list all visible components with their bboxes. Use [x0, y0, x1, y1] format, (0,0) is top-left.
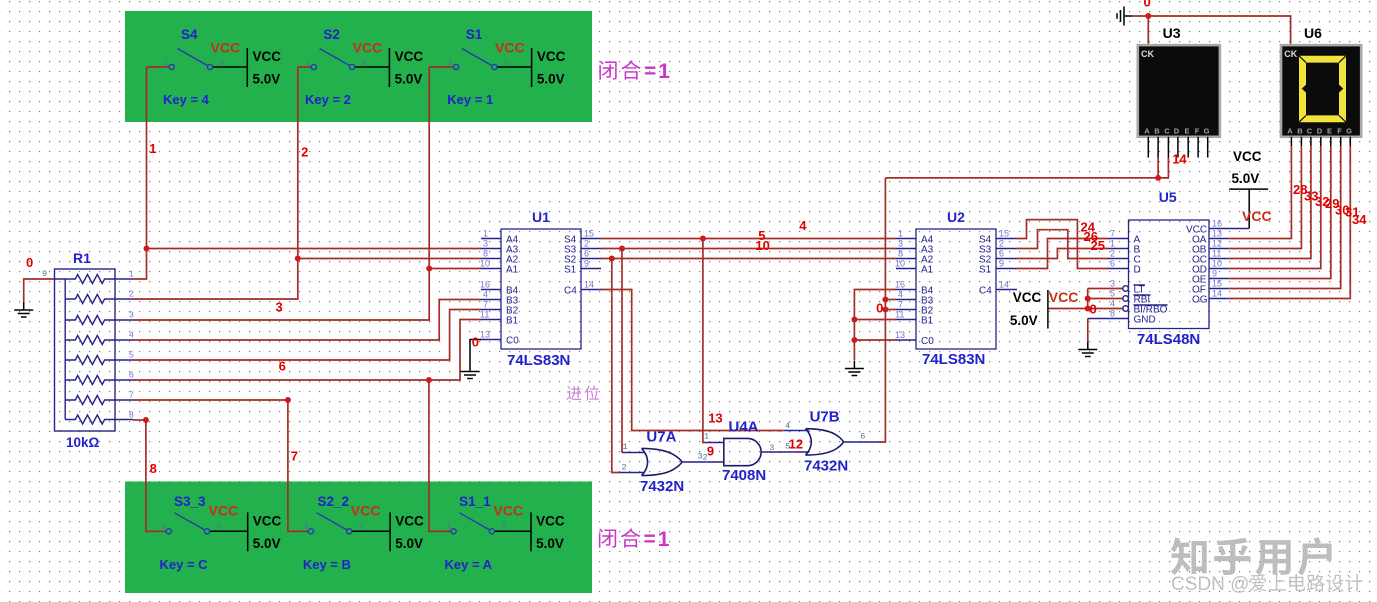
resistor R1 element 6	[65, 376, 133, 385]
wire U7B output carry riser	[880, 178, 885, 442]
svg-text:11: 11	[895, 310, 904, 320]
svg-text:4: 4	[129, 330, 134, 340]
R1 pin numbers	[129, 269, 134, 420]
green annotation box top	[125, 11, 592, 122]
svg-text:1: 1	[161, 522, 166, 532]
resistor R1 element 7	[65, 396, 133, 405]
svg-text:7: 7	[483, 300, 488, 310]
svg-text:D: D	[1174, 127, 1180, 136]
svg-text:S1_1: S1_1	[459, 494, 491, 509]
wire S1 down to R1 pin3	[133, 67, 429, 320]
wire net 0 CK grounds	[1132, 16, 1291, 45]
svg-text:U1: U1	[532, 209, 550, 225]
svg-text:OG: OG	[1192, 295, 1208, 306]
svg-text:VCC: VCC	[395, 49, 424, 64]
VCC bar U5	[1047, 290, 1049, 329]
svg-text:6: 6	[279, 359, 286, 374]
svg-text:14: 14	[1212, 289, 1222, 299]
svg-text:0: 0	[1144, 0, 1151, 10]
svg-text:F: F	[1195, 127, 1200, 136]
svg-text:2: 2	[504, 58, 509, 68]
svg-text:12: 12	[789, 437, 803, 452]
svg-text:4: 4	[898, 290, 903, 300]
green annotation box bottom	[125, 482, 592, 594]
svg-text:13: 13	[1212, 229, 1222, 239]
wire U5 VCC pin to VCC bar	[1229, 189, 1268, 228]
svg-text:1: 1	[704, 432, 709, 442]
svg-text:2: 2	[501, 522, 506, 532]
svg-text:2: 2	[301, 145, 308, 160]
svg-text:CK: CK	[1284, 49, 1297, 59]
svg-text:4: 4	[799, 218, 807, 233]
svg-text:C4: C4	[979, 286, 992, 297]
svg-text:D: D	[1317, 127, 1323, 136]
svg-text:8: 8	[1110, 309, 1115, 319]
svg-text:C4: C4	[564, 286, 577, 297]
svg-text:E: E	[1327, 127, 1332, 136]
wire U5 OD to U6 D	[1229, 146, 1321, 269]
switch S1_1	[430, 494, 565, 572]
svg-text:7: 7	[898, 300, 903, 310]
svg-text:3: 3	[898, 239, 903, 249]
svg-text:2: 2	[217, 522, 222, 532]
svg-text:VCC: VCC	[395, 514, 424, 529]
svg-text:11: 11	[1212, 249, 1221, 259]
svg-text:74LS83N: 74LS83N	[922, 351, 985, 368]
ground sideways top	[1117, 7, 1132, 26]
wire S2_2 riser	[288, 400, 309, 531]
wire U2 S2 to U5 B crossover	[1016, 249, 1109, 259]
svg-text:13: 13	[480, 330, 490, 340]
svg-text:6: 6	[999, 249, 1004, 259]
node carry to U2 B2	[882, 307, 888, 313]
svg-text:7432N: 7432N	[804, 458, 848, 475]
wire U2 S1 to U5 A crossover	[1016, 239, 1109, 269]
wire S3_3 riser	[146, 420, 166, 531]
svg-text:16: 16	[895, 280, 905, 290]
svg-text:0: 0	[26, 255, 33, 270]
svg-text:VCC: VCC	[1233, 149, 1262, 164]
svg-text:E: E	[1184, 127, 1189, 136]
svg-text:VCC: VCC	[1242, 208, 1272, 224]
wire U5 OB to U6 B	[1229, 146, 1302, 249]
svg-text:R1: R1	[73, 250, 91, 266]
svg-text:8: 8	[129, 410, 134, 420]
svg-text:VCC: VCC	[1013, 290, 1042, 305]
svg-text:Key = A: Key = A	[445, 557, 493, 572]
svg-text:G: G	[1204, 127, 1210, 136]
svg-text:9: 9	[999, 259, 1004, 269]
svg-text:=1: =1	[644, 528, 672, 551]
node S4out tap	[700, 236, 706, 242]
svg-text:4: 4	[1110, 299, 1115, 309]
svg-text:7432N: 7432N	[640, 478, 684, 495]
resistor R1 element 8	[65, 415, 133, 424]
svg-text:1: 1	[129, 269, 134, 279]
wire R1.6 to U1 B1 and S1_1	[133, 320, 481, 381]
svg-text:1: 1	[1110, 239, 1115, 249]
ground U1 C0	[461, 364, 480, 379]
svg-text:S1: S1	[979, 265, 992, 276]
svg-text:Key = B: Key = B	[303, 557, 351, 572]
switch S2_2	[288, 494, 424, 572]
svg-text:Key = 4: Key = 4	[163, 92, 210, 107]
svg-text:10: 10	[895, 259, 905, 269]
node U3 segB junction	[1155, 175, 1161, 181]
node RBI junction	[1085, 296, 1091, 302]
svg-text:U4A: U4A	[729, 419, 759, 436]
svg-text:GND: GND	[1134, 315, 1156, 326]
wire U5 OG to U6 G	[1229, 146, 1351, 299]
svg-text:1: 1	[149, 141, 156, 156]
wire U1 C0 to ground	[470, 340, 481, 364]
switch S2	[298, 27, 424, 107]
svg-text:Key = C: Key = C	[160, 557, 209, 572]
node S1/R1.3 junction	[426, 266, 432, 272]
wire U1 S3 to U2 A3 net 10	[601, 248, 896, 250]
ground R1	[14, 302, 33, 317]
wire net 3 to U1 A2	[298, 258, 481, 260]
svg-text:U7A: U7A	[646, 429, 676, 446]
node R1.7/S2_2 junction	[285, 397, 291, 403]
svg-text:11: 11	[480, 310, 489, 320]
wire U2 B4 B1 C0 ground bus	[854, 290, 896, 361]
switch S1	[429, 27, 565, 107]
svg-text:0: 0	[472, 335, 479, 350]
svg-text:Key = 2: Key = 2	[305, 92, 351, 107]
wire carry to U2 B2	[885, 309, 896, 311]
svg-text:1: 1	[483, 229, 488, 239]
wire carry net 14 to U3 segments B C	[885, 158, 1168, 178]
svg-text:15: 15	[1212, 279, 1222, 289]
svg-text:5.0V: 5.0V	[395, 536, 423, 551]
svg-text:10: 10	[1212, 259, 1222, 269]
svg-text:G: G	[1346, 127, 1352, 136]
resistor R1 element 5	[65, 356, 133, 365]
svg-text:1: 1	[898, 229, 903, 239]
node R1.6/S1_1 junction	[426, 377, 432, 383]
seven-segment display U6 showing 0	[1281, 25, 1361, 146]
svg-text:VCC: VCC	[1049, 289, 1079, 305]
svg-text:U6: U6	[1304, 25, 1322, 41]
wire R1.4 to U1 B3	[133, 300, 481, 341]
resistor R1 element 4	[65, 336, 133, 345]
ground U5	[1078, 342, 1097, 357]
svg-text:U7B: U7B	[810, 409, 840, 426]
svg-text:5.0V: 5.0V	[253, 72, 281, 87]
wire net 13 down to U4A pin1	[703, 239, 705, 443]
node R1.8/S3_3 junction	[143, 417, 149, 423]
svg-text:3: 3	[129, 310, 134, 320]
svg-text:0: 0	[1090, 302, 1097, 317]
wire down to U7A pin2	[612, 259, 620, 473]
wire net 1 to U1 A3	[147, 248, 482, 250]
wire R1.5 to U1 B2	[133, 310, 481, 361]
wire R1.8 to S3_3	[133, 419, 146, 421]
svg-text:A: A	[1287, 127, 1293, 136]
svg-text:B1: B1	[506, 316, 519, 327]
svg-text:2: 2	[999, 239, 1004, 249]
svg-text:U3: U3	[1163, 25, 1181, 41]
svg-text:5.0V: 5.0V	[1232, 171, 1260, 186]
wire U2 S3 to U5 C crossover	[1016, 230, 1109, 259]
svg-text:6: 6	[1110, 259, 1115, 269]
svg-text:S1: S1	[466, 27, 483, 42]
node S4/R1.1 junction	[144, 246, 150, 252]
svg-text:7408N: 7408N	[722, 467, 766, 484]
svg-text:6: 6	[584, 249, 589, 259]
svg-text:S1: S1	[564, 265, 577, 276]
wire to U1 A1	[429, 268, 481, 270]
svg-text:0: 0	[876, 301, 883, 316]
svg-text:74LS48N: 74LS48N	[1137, 331, 1200, 348]
svg-text:A: A	[1144, 127, 1150, 136]
resistor R1 element 3	[65, 316, 133, 325]
svg-text:1: 1	[304, 522, 309, 532]
svg-text:6: 6	[129, 370, 134, 380]
svg-text:3: 3	[483, 239, 488, 249]
wire U5 OF to U6 F	[1229, 146, 1341, 289]
svg-text:6: 6	[860, 432, 865, 442]
svg-text:34: 34	[1352, 212, 1367, 227]
wire U5 LT RBI BI tie to VCC	[1048, 289, 1123, 309]
node S2out tap	[609, 256, 615, 262]
svg-text:7: 7	[129, 390, 134, 400]
svg-text:2: 2	[362, 58, 367, 68]
svg-text:B: B	[1154, 127, 1160, 136]
svg-text:3: 3	[276, 300, 283, 315]
svg-text:C0: C0	[921, 336, 934, 347]
resistor R1 element 2	[65, 295, 133, 304]
svg-text:S2_2: S2_2	[318, 494, 350, 509]
svg-text:Key = 1: Key = 1	[447, 92, 493, 107]
svg-text:A1: A1	[506, 265, 519, 276]
svg-text:CSDN @: CSDN @	[1171, 574, 1249, 595]
svg-text:7: 7	[291, 449, 298, 464]
wire U2 S4 to U5 D crossover	[1016, 220, 1109, 269]
svg-text:5.0V: 5.0V	[537, 72, 565, 87]
svg-text:9: 9	[707, 444, 714, 459]
svg-text:A1: A1	[921, 265, 934, 276]
svg-text:VCC: VCC	[253, 514, 282, 529]
svg-text:10: 10	[755, 238, 769, 253]
svg-text:2: 2	[584, 239, 589, 249]
svg-text:VCC: VCC	[536, 514, 565, 529]
wire S1_1 riser	[429, 380, 451, 531]
svg-text:16: 16	[480, 280, 490, 290]
svg-text:2: 2	[622, 463, 627, 473]
U5 VCC power bar top right	[1232, 149, 1272, 224]
svg-text:4: 4	[483, 290, 488, 300]
svg-text:1: 1	[446, 522, 451, 532]
svg-text:VCC: VCC	[495, 40, 525, 56]
wire U5 OA to U6 A	[1229, 146, 1292, 239]
ground U2	[845, 361, 864, 376]
wire carry to U2 B3	[885, 299, 896, 301]
svg-text:14: 14	[1172, 152, 1187, 167]
svg-text:14: 14	[584, 280, 594, 290]
svg-text:D: D	[1134, 265, 1141, 276]
svg-text:4: 4	[785, 421, 790, 431]
node carry to U2 B3	[882, 297, 888, 303]
node U2 C0 gnd junction	[851, 337, 857, 343]
svg-text:2: 2	[359, 522, 364, 532]
svg-text:1: 1	[623, 442, 628, 452]
svg-text:5.0V: 5.0V	[395, 72, 423, 87]
svg-text:12: 12	[1212, 239, 1222, 249]
wire U5 GND pin to ground	[1087, 319, 1089, 342]
wire U5 OE to U6 E	[1229, 146, 1331, 279]
op-amp U2 74LS83N adder	[895, 209, 1017, 368]
annotation closed=1 top	[599, 61, 616, 80]
svg-text:CK: CK	[1141, 49, 1154, 59]
svg-text:VCC: VCC	[351, 503, 381, 519]
svg-text:=1: =1	[644, 60, 672, 83]
svg-text:1: 1	[164, 58, 169, 68]
svg-text:15: 15	[999, 229, 1009, 239]
svg-text:14: 14	[999, 280, 1009, 290]
wire U1 S4 to U2 A4 net 5	[601, 238, 896, 240]
svg-text:S2: S2	[323, 27, 340, 42]
U5 VCC source texts	[1010, 289, 1078, 328]
svg-text:1: 1	[448, 58, 453, 68]
wire S2 down to R1 pin2	[133, 67, 298, 299]
wire R1 pin9 to ground	[24, 279, 55, 302]
seven-segment display U3	[1138, 25, 1220, 158]
svg-text:5.0V: 5.0V	[1010, 313, 1038, 328]
wire U1 S2 to U2 A2	[601, 258, 896, 260]
svg-text:U2: U2	[947, 209, 965, 225]
svg-text:C0: C0	[506, 336, 519, 347]
svg-text:16: 16	[1212, 219, 1222, 229]
svg-text:2: 2	[1110, 249, 1115, 259]
annotation carry label	[567, 386, 582, 400]
svg-text:B: B	[1297, 127, 1303, 136]
svg-text:5: 5	[129, 350, 134, 360]
svg-text:B1: B1	[921, 316, 934, 327]
svg-text:VCC: VCC	[209, 503, 239, 519]
svg-text:VCC: VCC	[211, 40, 241, 56]
svg-text:3: 3	[769, 443, 774, 453]
svg-text:VCC: VCC	[353, 40, 383, 56]
wire down to U7A pin1	[621, 249, 623, 453]
switch S4	[147, 27, 282, 107]
svg-text:8: 8	[150, 461, 157, 476]
svg-text:9: 9	[584, 259, 589, 269]
svg-text:2: 2	[129, 289, 134, 299]
wire U5 OC to U6 C	[1229, 146, 1311, 259]
svg-text:VCC: VCC	[253, 49, 282, 64]
node CK gnd junction	[1145, 13, 1151, 19]
resistor network R1	[42, 250, 115, 450]
wire S4 down to R1 pin1 with tap to U1 A3	[133, 67, 147, 279]
svg-text:S3_3: S3_3	[174, 494, 206, 509]
annotation closed=1 bottom	[599, 529, 616, 548]
svg-text:15: 15	[584, 229, 594, 239]
svg-text:5.0V: 5.0V	[536, 536, 564, 551]
svg-text:7: 7	[1110, 229, 1115, 239]
svg-text:1: 1	[306, 58, 311, 68]
svg-text:13: 13	[708, 411, 722, 426]
watermark zhihu	[1171, 538, 1207, 575]
node U2 B1 gnd junction	[851, 317, 857, 323]
svg-text:5: 5	[1110, 289, 1115, 299]
svg-text:C: C	[1307, 127, 1313, 136]
svg-text:8: 8	[898, 249, 903, 259]
svg-text:C: C	[1164, 127, 1170, 136]
svg-text:U5: U5	[1159, 189, 1177, 205]
op-amp U7A 7432N OR gate	[620, 429, 724, 496]
switch S3_3	[146, 494, 282, 572]
svg-text:9: 9	[1212, 269, 1217, 279]
op-amp U1 74LS83N adder	[480, 209, 601, 369]
svg-text:74LS83N: 74LS83N	[507, 352, 570, 369]
svg-text:2: 2	[220, 58, 225, 68]
svg-text:13: 13	[895, 330, 905, 340]
resistor R1 element 1	[55, 275, 134, 284]
svg-text:F: F	[1337, 127, 1342, 136]
svg-text:VCC: VCC	[537, 49, 566, 64]
wire U1 C4 to U7B pin4	[601, 290, 784, 431]
op-amp U5 74LS48N decoder	[1088, 189, 1249, 348]
svg-text:9: 9	[42, 269, 47, 279]
svg-text:10: 10	[480, 259, 490, 269]
svg-text:3: 3	[1110, 279, 1115, 289]
svg-text:25: 25	[1091, 238, 1105, 253]
wire R1.7 to S2_2	[133, 399, 288, 401]
node BI junction	[1085, 306, 1091, 312]
node S2/R1.2 junction	[295, 256, 301, 262]
node S3out tap	[619, 246, 625, 252]
svg-text:S4: S4	[181, 27, 198, 42]
svg-text:5.0V: 5.0V	[253, 536, 281, 551]
svg-text:10kΩ: 10kΩ	[66, 435, 100, 450]
op-amp U7B 7432N OR gate	[784, 409, 880, 475]
svg-text:VCC: VCC	[494, 503, 524, 519]
op-amp U4A 7408N AND gate	[698, 419, 810, 485]
svg-text:8: 8	[483, 249, 488, 259]
